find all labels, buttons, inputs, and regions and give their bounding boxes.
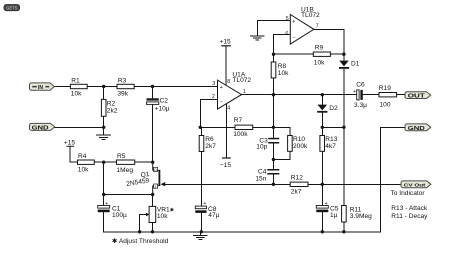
svg-text:R3: R3: [118, 78, 127, 85]
svg-text:10k: 10k: [157, 213, 168, 220]
wire U1B plus input: [257, 20, 290, 36]
resistor R6: [199, 136, 216, 152]
svg-text:4k7: 4k7: [325, 143, 336, 150]
svg-text:R1: R1: [71, 78, 80, 85]
svg-text:15n: 15n: [255, 176, 266, 183]
resistor R7: [233, 117, 253, 138]
svg-text:5: 5: [286, 16, 289, 22]
svg-text:✱ Adjust Threshold: ✱ Adjust Threshold: [112, 237, 169, 245]
svg-text:D: D: [154, 168, 157, 172]
svg-text:200k: 200k: [293, 143, 308, 150]
svg-text:R13 - Attack: R13 - Attack: [391, 205, 428, 212]
junction R8 output row: [272, 93, 275, 96]
op-amp U1B: [285, 7, 320, 45]
wire R4 R5 row: [94, 161, 152, 163]
wire U1A pin8 to +15: [225, 46, 227, 85]
junction Q1 source VR1: [151, 193, 154, 196]
wire GND left row: [54, 126, 103, 128]
junction R13 C5 CV row: [321, 183, 324, 186]
resistor R3: [117, 78, 134, 98]
svg-text:C6: C6: [356, 82, 365, 89]
junction C8 bus ground: [200, 230, 203, 233]
svg-text:+15: +15: [220, 38, 232, 45]
svg-text:10k: 10k: [314, 60, 325, 67]
wire U1A minus node: [200, 99, 235, 127]
junction R9 minus node: [272, 53, 275, 56]
connector CV Out: [401, 181, 431, 188]
resistor R5: [117, 153, 135, 174]
svg-text:C2: C2: [160, 98, 169, 105]
junction R1 R2 R3: [102, 85, 105, 88]
resistor R2: [101, 99, 117, 116]
svg-text:R8: R8: [278, 63, 287, 70]
capacitor C3: [256, 138, 279, 151]
wire R11 bottom to bus: [343, 222, 345, 232]
ground symbol U1B plus: [250, 36, 264, 40]
svg-text:To Indicator: To Indicator: [391, 190, 426, 197]
svg-text:2k7: 2k7: [205, 143, 216, 150]
junction D2 output row: [321, 93, 324, 96]
ground symbol under R2: [96, 135, 111, 139]
svg-text:10p: 10p: [256, 144, 267, 151]
svg-text:GND: GND: [32, 125, 50, 131]
svg-text:OUT: OUT: [408, 94, 425, 100]
connector IN: [30, 83, 55, 91]
svg-text:R5: R5: [117, 153, 126, 160]
svg-text:2k2: 2k2: [107, 107, 118, 114]
capacitor C5: [316, 201, 338, 219]
junction D1 link: [342, 126, 345, 129]
resistor R13: [320, 136, 338, 152]
svg-text:CV Out: CV Out: [404, 182, 426, 187]
svg-text:+10µ: +10µ: [155, 105, 170, 112]
wire U1B minus input: [274, 34, 291, 36]
resistor R9: [313, 45, 330, 67]
resistor R10: [288, 136, 308, 152]
svg-text:10k: 10k: [78, 166, 89, 173]
wire D1 D2 link row: [322, 126, 344, 128]
wire R4R5 node down to C1: [103, 162, 105, 232]
svg-text:R13: R13: [325, 136, 337, 143]
wire R10 bottom link: [273, 151, 289, 159]
junction R4 R5 C1: [102, 161, 105, 164]
svg-text:6: 6: [285, 31, 288, 37]
resistor R19: [379, 85, 397, 109]
svg-text:7: 7: [316, 24, 319, 30]
svg-text:−: −: [220, 100, 223, 106]
junction R9 D1: [342, 53, 345, 56]
connector GND left: [30, 123, 55, 131]
svg-text:3: 3: [212, 81, 215, 87]
svg-text:D2: D2: [329, 105, 338, 112]
junction C3 R10 link: [272, 158, 275, 161]
svg-text:2: 2: [212, 94, 215, 100]
junction R11 bus: [342, 230, 345, 233]
svg-text:−: −: [292, 35, 295, 41]
diode D1: [339, 61, 360, 69]
svg-text:10k: 10k: [71, 91, 82, 98]
wire GND right: [380, 127, 407, 232]
svg-text:GND: GND: [408, 126, 426, 132]
wire U1A pin4 to -15: [225, 104, 227, 158]
potentiometer VR1: [146, 206, 174, 222]
connector GND right: [405, 124, 431, 132]
ground symbol bottom bus: [193, 232, 207, 240]
svg-text:R7: R7: [234, 117, 243, 124]
capacitor C1: [98, 201, 127, 219]
svg-text:C4: C4: [258, 168, 267, 175]
svg-text:R4: R4: [78, 153, 87, 160]
junction R3 C2: [151, 85, 154, 88]
wire +15 to R4: [70, 146, 77, 162]
wire U1B output to D1: [314, 29, 344, 60]
junction D2 R13: [321, 126, 324, 129]
wire C2 vertical: [152, 87, 154, 163]
transistor Q1: [125, 162, 165, 194]
svg-text:1µ: 1µ: [330, 212, 338, 219]
junction U1A minus R6 R7: [199, 126, 202, 129]
logo badge: [4, 5, 20, 11]
power +15 left: [64, 140, 76, 147]
wire IN row: [54, 86, 217, 88]
svg-text:R9: R9: [315, 45, 324, 52]
wire CV row: [165, 183, 403, 185]
resistor R12: [290, 175, 308, 196]
svg-text:1Meg: 1Meg: [117, 167, 134, 174]
svg-text:−15: −15: [220, 162, 232, 169]
svg-text:3.9Meg: 3.9Meg: [350, 213, 372, 220]
capacitor C8: [195, 201, 219, 219]
junction R7 C3: [272, 126, 275, 129]
svg-text:TL072: TL072: [232, 77, 251, 84]
svg-text:D1: D1: [351, 61, 360, 68]
junction wiper bus: [138, 230, 141, 233]
wire D2 branch: [321, 95, 323, 136]
capacitor C4: [255, 168, 279, 182]
wire R2 vertical: [103, 87, 105, 136]
svg-text:R10: R10: [293, 136, 305, 143]
svg-text:TL072: TL072: [301, 12, 320, 19]
svg-text:IN: IN: [38, 85, 43, 91]
junction VR1 bus: [151, 230, 154, 233]
wire R8 C3 C4 vertical: [273, 35, 275, 185]
svg-text:4: 4: [227, 106, 230, 112]
svg-text:GETS: GETS: [6, 6, 17, 11]
resistor R11: [342, 206, 373, 223]
wire U1A output row: [242, 94, 408, 96]
resistor R4: [78, 153, 95, 173]
resistor R8: [271, 62, 289, 78]
wire R6 to C8: [201, 127, 203, 232]
power +15 U1A: [220, 38, 232, 45]
svg-text:+: +: [353, 89, 356, 95]
svg-text:100µ: 100µ: [112, 212, 127, 219]
svg-text:+: +: [220, 85, 223, 91]
svg-text:R6: R6: [205, 136, 214, 143]
capacitor C2: [147, 98, 170, 113]
svg-text:100k: 100k: [233, 131, 248, 138]
wire D1 cathode down: [343, 69, 345, 206]
svg-text:39k: 39k: [117, 91, 128, 98]
junction C4 CV row: [272, 183, 275, 186]
power -15 U1A: [220, 158, 232, 169]
svg-text:10k: 10k: [278, 70, 289, 77]
capacitor C6: [353, 82, 367, 109]
connector OUT: [405, 92, 431, 100]
resistor R1: [70, 78, 87, 98]
svg-text:s: s: [155, 185, 157, 189]
diode D2: [317, 105, 338, 113]
svg-text:R2: R2: [107, 100, 116, 107]
svg-text:2k7: 2k7: [291, 189, 302, 196]
svg-text:+15: +15: [64, 140, 76, 147]
wire R9 row: [274, 53, 344, 55]
wire ground bus: [104, 231, 381, 233]
junction C5 bus: [321, 230, 324, 233]
svg-text:R11 - Decay: R11 - Decay: [391, 213, 428, 220]
wire R7 right to C3 node: [253, 127, 290, 135]
wire VR1 wiper to bus: [140, 215, 147, 232]
svg-text:+: +: [292, 19, 295, 25]
svg-text:R12: R12: [291, 175, 303, 182]
svg-text:1: 1: [243, 89, 246, 95]
op-amp U1A: [212, 71, 251, 111]
svg-text:100: 100: [380, 102, 391, 109]
junction C1 source row: [102, 193, 105, 196]
svg-text:8: 8: [227, 79, 230, 85]
wire VR1 vertical: [152, 195, 154, 232]
wire R13 bottom to C5: [321, 151, 323, 232]
junction R2 GND: [102, 126, 105, 129]
svg-text:3.3µ: 3.3µ: [354, 102, 367, 109]
wire U1A plus input: [153, 86, 218, 88]
svg-text:R19: R19: [379, 85, 391, 92]
junction R5 C2 Q1 drain: [151, 161, 154, 164]
wire Q1 source row: [104, 194, 153, 196]
svg-text:47µ: 47µ: [208, 212, 219, 219]
